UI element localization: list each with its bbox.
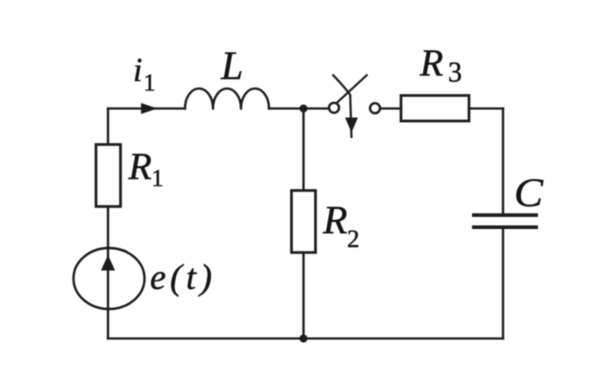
svg-text:e(t): e(t) (150, 257, 212, 297)
wire bottom horizontal (108, 337, 503, 339)
node junction top (300, 105, 308, 113)
wire middle vertical lower (302, 253, 304, 339)
svg-text:2: 2 (347, 226, 360, 253)
svg-text:1: 1 (152, 166, 164, 192)
switch motion line (333, 75, 352, 139)
resistor R2 (292, 191, 316, 253)
wire right vertical lower (502, 230, 504, 339)
svg-text:R: R (128, 146, 152, 188)
resistor R3 (401, 96, 469, 122)
svg-text:C: C (514, 170, 544, 215)
wire switch to R3 (381, 107, 401, 109)
resistor R1 (96, 145, 121, 207)
switch blade (337, 75, 368, 103)
switch contact right (370, 103, 380, 113)
switch contact left (329, 103, 339, 113)
current arrow i1 (141, 103, 158, 114)
source e(t) circle (74, 248, 145, 309)
node junction bottom (300, 335, 308, 343)
wire right vertical upper (502, 109, 504, 214)
switch motion arrowhead (down) (345, 118, 358, 133)
wire left vertical (through source) (107, 109, 109, 339)
svg-text:i: i (133, 52, 142, 89)
source arrow (up) (101, 255, 115, 271)
capacitor C plates (472, 213, 538, 217)
wire inductor to switch (269, 107, 329, 109)
wire top-left horizontal (108, 107, 185, 109)
svg-text:R: R (322, 198, 347, 243)
svg-text:L: L (220, 43, 243, 88)
svg-text:1: 1 (144, 71, 156, 97)
wire R3 to right corner (470, 107, 504, 109)
svg-text:R: R (419, 43, 443, 85)
wire middle vertical upper (302, 109, 304, 191)
svg-text:3: 3 (448, 58, 462, 89)
inductor L (185, 89, 269, 109)
